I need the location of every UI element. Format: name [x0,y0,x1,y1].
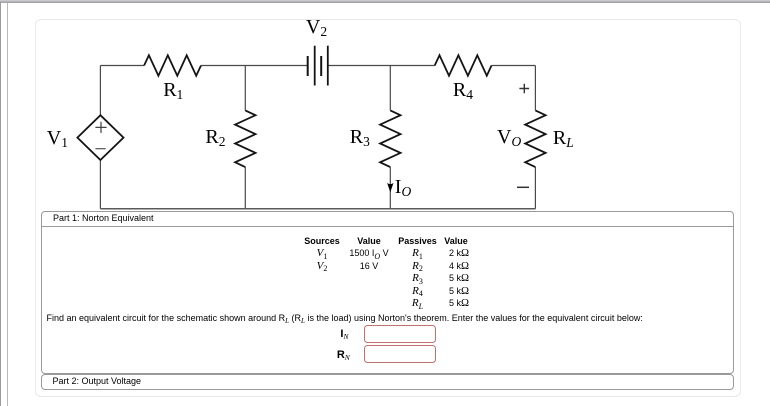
wire R2 lower [244,167,246,209]
label R4 [453,80,473,102]
wire RL lower [534,167,536,209]
input box IN [364,325,436,343]
wire R3 upper [389,66,391,111]
wire R2 upper [244,66,246,111]
RL plus sign [519,84,529,94]
wire left branch lower [99,160,101,209]
label RL [553,128,574,150]
wire top rail left segment [100,65,144,67]
resistor R3 [380,110,400,167]
resistor RL [525,110,545,167]
Part 1 header text [53,213,154,223]
battery V2 [308,46,328,86]
wire R3 lower [389,167,391,209]
wire top rail R1-to-battery [201,65,308,67]
V1 plus sign [95,122,106,133]
Part 1 box [41,211,733,373]
label V2 [306,17,327,39]
resistor R1 [144,55,201,75]
resistor R4 [435,55,492,75]
wire top rail R4-to-corner [492,65,536,67]
label R3 [350,127,370,149]
table column Passives [391,235,444,310]
label Io [395,177,411,199]
question text [47,313,643,323]
wire RL upper [534,66,536,111]
label RN [321,349,350,361]
left page border [7,3,8,406]
wire top rail battery-to-R4 [328,65,435,67]
resistor R2 [235,110,255,167]
Part 2 header text [53,376,142,386]
label IN [320,328,349,340]
label R2 [205,127,225,149]
V1 minus sign [95,148,105,150]
input box RN [364,345,436,363]
label R1 [163,80,183,102]
table column Sources [292,235,352,272]
Part 2 box [41,374,733,389]
source V1 diamond [77,115,123,160]
label V1 [47,128,68,150]
wire left branch upper [99,66,101,116]
top gray bar [0,0,770,3]
table column Value (passives) [432,235,480,310]
table column Value (sources) [337,235,401,272]
current arrow Io [387,183,393,192]
wire bottom rail [100,208,535,210]
RL minus sign [517,186,529,188]
label Vo [497,127,521,149]
